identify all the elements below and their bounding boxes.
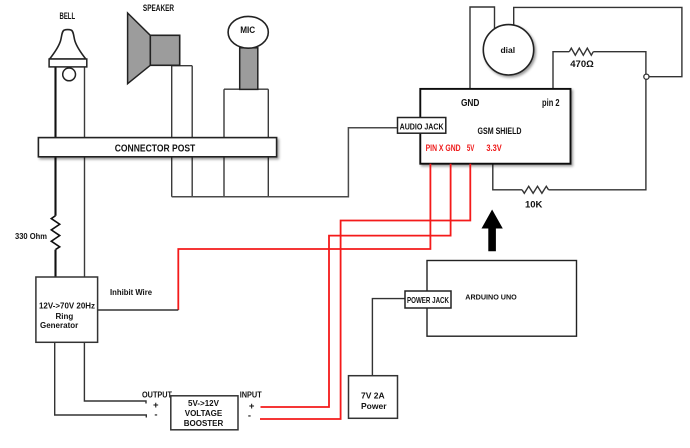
GSM shield U1: [420, 89, 570, 164]
wire red PIN X to inhibit: [178, 164, 430, 310]
svg-text:Power: Power: [361, 401, 387, 411]
wire inhibit: [98, 309, 179, 311]
wire dial right loop: [514, 7, 682, 76]
ring generator: [36, 277, 98, 342]
voltage booster: [171, 396, 238, 430]
svg-text:5V: 5V: [467, 143, 475, 153]
svg-text:-: -: [154, 410, 157, 421]
svg-text:CONNECTOR POST: CONNECTOR POST: [115, 142, 196, 154]
speaker magnet: [150, 35, 179, 65]
arrow to GSM shield: [482, 210, 503, 252]
bell clapper: [63, 68, 76, 81]
wire 10K to GSM 3.3V pin: [493, 164, 522, 190]
svg-text:3.3V: 3.3V: [486, 143, 501, 153]
bell: [50, 30, 86, 59]
7V 2A power supply: [349, 376, 398, 419]
svg-text:INPUT: INPUT: [240, 390, 262, 399]
wire speaker column: [172, 66, 193, 197]
svg-text:12V->70V 20Hz: 12V->70V 20Hz: [39, 301, 95, 310]
svg-text:dial: dial: [500, 45, 515, 55]
wire audio bus to audio jack: [172, 128, 398, 197]
svg-text:BELL: BELL: [60, 11, 76, 21]
wire pin2 to 470 resistor: [553, 52, 569, 89]
wire mic column: [224, 89, 268, 197]
wire bell post right: [84, 67, 86, 277]
mic head: [228, 16, 268, 48]
connector post: [38, 138, 276, 157]
wire 7V power to power jack: [372, 299, 405, 376]
power jack: [405, 291, 451, 308]
wire red GND to booster input plus: [261, 164, 451, 407]
wire node to 10K to 3.3V: [549, 79, 646, 190]
wire ring generator output minus: [55, 342, 147, 417]
wire red 5V to booster input minus: [260, 164, 470, 419]
svg-text:5V->12V: 5V->12V: [188, 399, 220, 408]
svg-text:POWER JACK: POWER JACK: [407, 295, 450, 305]
svg-text:BOOSTER: BOOSTER: [184, 419, 224, 428]
wire GND to dial left: [470, 7, 495, 89]
node junction: [644, 74, 649, 79]
audio jack: [398, 118, 446, 134]
svg-text:pin 2: pin 2: [542, 98, 560, 109]
mic stem: [240, 48, 258, 90]
resistor 330 Ohm: [51, 216, 59, 250]
svg-text:PIN X GND: PIN X GND: [426, 143, 461, 153]
svg-text:ARDUINO UNO: ARDUINO UNO: [465, 292, 517, 301]
svg-text:Generator: Generator: [40, 321, 78, 330]
svg-text:VOLTAGE: VOLTAGE: [185, 409, 223, 418]
svg-text:OUTPUT: OUTPUT: [142, 390, 172, 399]
svg-text:330 Ohm: 330 Ohm: [15, 231, 47, 241]
svg-text:AUDIO JACK: AUDIO JACK: [400, 121, 445, 131]
wire 470 resistor to node: [593, 52, 646, 74]
dial: [483, 25, 533, 75]
svg-text:10K: 10K: [525, 199, 543, 210]
svg-text:Ring: Ring: [56, 312, 74, 321]
resistor 10K: [522, 186, 549, 193]
svg-text:-: -: [248, 410, 251, 421]
svg-text:GSM SHIELD: GSM SHIELD: [478, 126, 522, 137]
resistor 470 ohm: [569, 48, 593, 55]
speaker cone: [128, 13, 151, 84]
svg-text:Inhibit Wire: Inhibit Wire: [110, 288, 153, 297]
svg-text:SPEAKER: SPEAKER: [143, 3, 175, 13]
svg-text:GND: GND: [461, 98, 480, 109]
wire ring generator output plus: [84, 342, 146, 403]
arduino uno: [427, 261, 577, 337]
svg-text:7V 2A: 7V 2A: [361, 390, 385, 400]
bell base: [49, 59, 87, 67]
svg-text:MIC: MIC: [240, 25, 255, 35]
svg-text:470Ω: 470Ω: [570, 59, 594, 70]
wire bell post left: [54, 67, 56, 277]
